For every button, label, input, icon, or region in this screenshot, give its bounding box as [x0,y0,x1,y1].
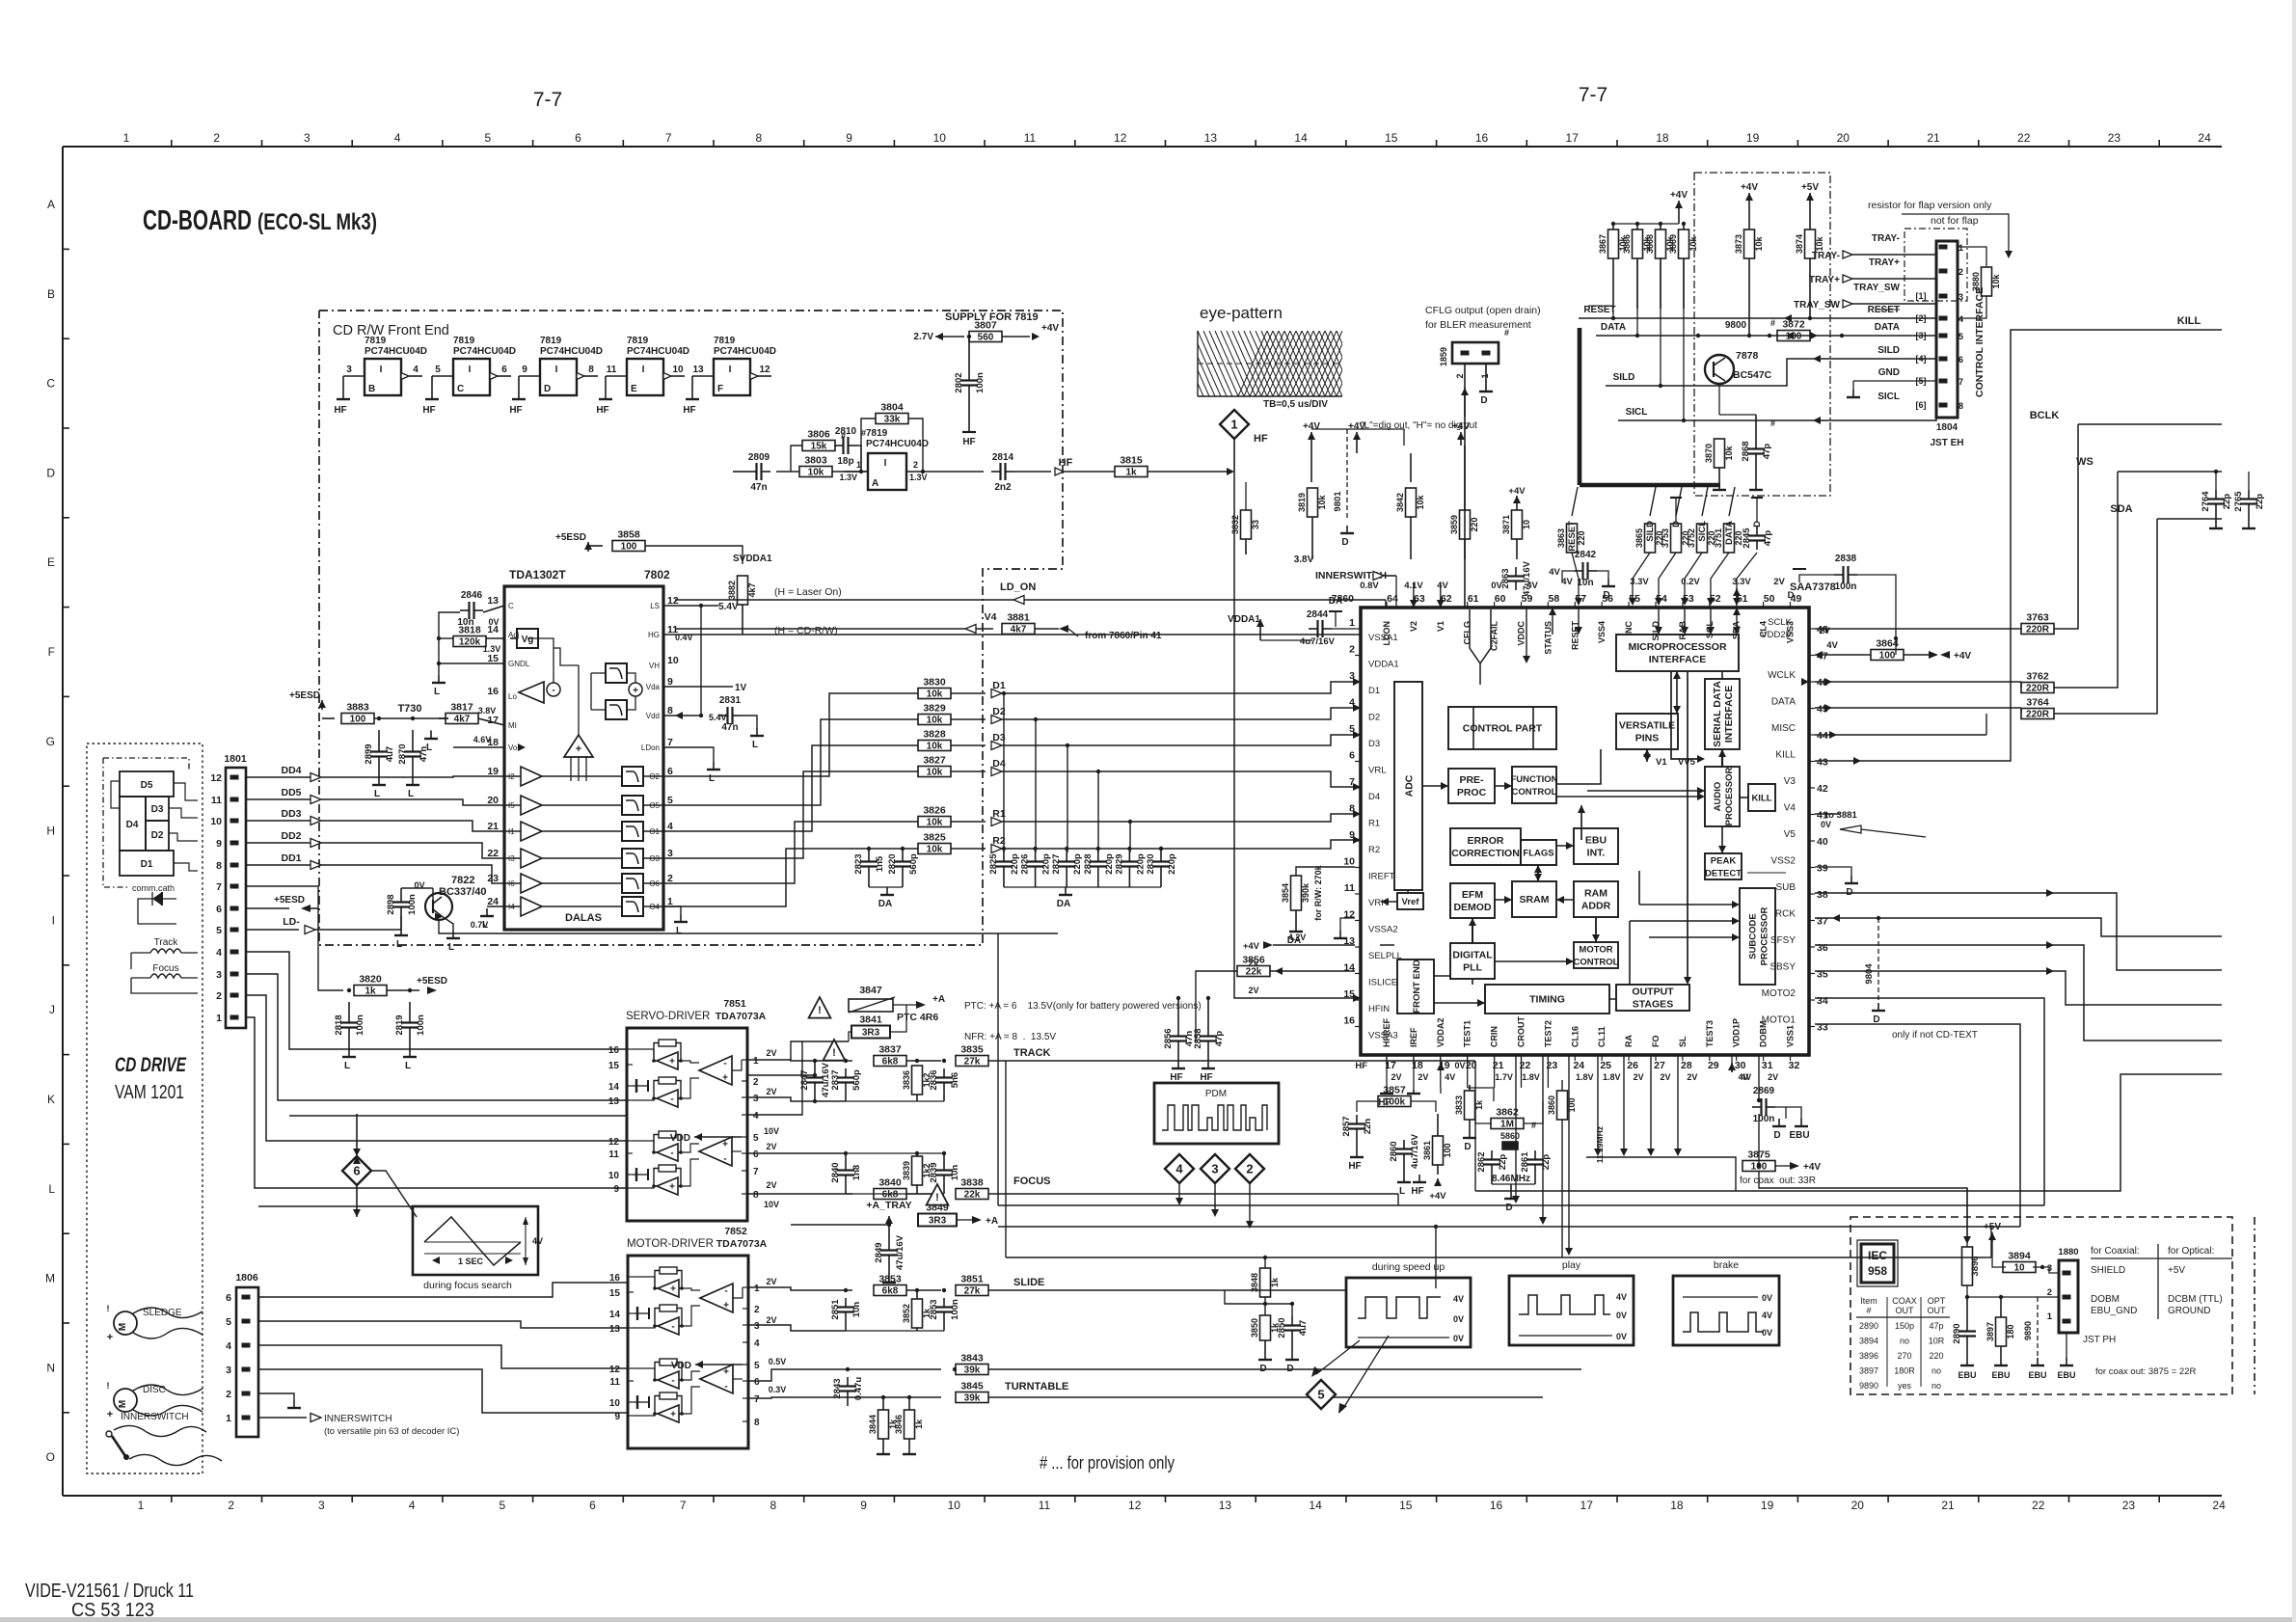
svg-text:1: 1 [226,1413,231,1424]
svg-text:4V: 4V [1738,1072,1748,1082]
svg-text:SUB: SUB [1775,882,1796,893]
svg-text:5n6: 5n6 [950,1072,960,1088]
svg-text:10k: 10k [1416,495,1425,510]
svg-text:8: 8 [753,1190,759,1201]
svg-text:16: 16 [1343,1015,1355,1027]
svg-text:3838: 3838 [960,1177,984,1189]
svg-text:DD4: DD4 [281,765,301,776]
svg-text:18p: 18p [837,456,853,467]
svg-text:16: 16 [487,686,499,697]
svg-text:220: 220 [1929,1351,1943,1361]
svg-text:EBU_GND: EBU_GND [2091,1306,2137,1316]
svg-text:3763: 3763 [2026,612,2049,624]
svg-text:9: 9 [216,838,222,850]
svg-text:KILL: KILL [1775,750,1796,761]
svg-text:3873: 3873 [1734,234,1743,254]
svg-text:13: 13 [1204,131,1218,145]
svg-text:10: 10 [948,1499,961,1512]
svg-text:10k: 10k [1688,236,1698,252]
svg-text:27k: 27k [964,1286,981,1297]
svg-text:3751: 3751 [1714,528,1723,548]
svg-text:6k8: 6k8 [882,1057,899,1068]
svg-text:560p: 560p [851,1069,862,1091]
svg-text:100: 100 [621,542,637,553]
svg-text:3835: 3835 [960,1044,984,1056]
svg-text:40: 40 [1817,836,1828,848]
svg-text:1.3V: 1.3V [909,473,928,482]
svg-text:47u/16V: 47u/16V [821,1062,831,1097]
svg-text:6: 6 [667,766,673,777]
svg-text:resistor for flap version only: resistor for flap version only [1868,200,1992,211]
svg-text:MI: MI [508,721,517,730]
svg-text:HF: HF [334,405,346,416]
svg-text:VDD: VDD [670,1133,690,1144]
svg-text:34: 34 [1817,995,1828,1007]
svg-text:100: 100 [1443,1143,1452,1157]
svg-text:10V: 10V [764,1200,779,1209]
svg-text:MOTO2: MOTO2 [1762,988,1796,999]
svg-text:V2: V2 [1409,621,1418,632]
svg-text:1.3V: 1.3V [483,644,501,654]
svg-text:9801: 9801 [1333,491,1343,512]
svg-text:RAM: RAM [1584,888,1607,900]
svg-text:SCL: SCL [1705,620,1715,638]
svg-text:2V: 2V [1391,1072,1401,1082]
svg-text:for Optical:: for Optical: [2168,1246,2214,1257]
svg-text:DALAS: DALAS [565,912,602,924]
svg-text:6: 6 [1349,750,1355,762]
svg-text:HF: HF [683,405,695,416]
svg-text:11.29MHz: 11.29MHz [1595,1126,1605,1163]
svg-text:33k: 33k [884,415,901,425]
svg-text:L: L [405,1061,411,1071]
svg-text:C: C [508,602,514,610]
svg-text:32: 32 [1789,1060,1800,1071]
svg-text:HF: HF [422,405,435,416]
svg-text:4V: 4V [1437,581,1448,591]
svg-text:-: - [552,686,554,696]
svg-text:2: 2 [667,873,673,884]
svg-text:4V: 4V [1616,1292,1627,1302]
svg-text:#: # [1866,1306,1871,1315]
svg-text:D: D [544,384,551,394]
svg-text:6: 6 [226,1292,231,1304]
svg-text:1: 1 [138,1499,145,1512]
svg-text:18: 18 [1670,1499,1684,1512]
svg-text:C: C [457,384,464,394]
svg-text:CFLG: CFLG [1463,621,1472,645]
svg-text:12: 12 [1343,909,1355,921]
svg-text:+A_TRAY: +A_TRAY [866,1200,911,1211]
svg-text:21: 21 [1927,131,1940,145]
svg-text:C: C [46,377,55,391]
svg-text:+: + [722,1073,728,1084]
svg-text:2V: 2V [766,1142,776,1151]
svg-text:23: 23 [2122,1499,2136,1512]
svg-text:21: 21 [487,821,499,832]
svg-text:5: 5 [754,1361,760,1371]
svg-text:OUT: OUT [1928,1306,1947,1315]
svg-text:BC337/40: BC337/40 [439,886,487,898]
svg-text:3833: 3833 [1454,1095,1464,1115]
svg-text:3896: 3896 [1970,1256,1981,1276]
svg-text:8: 8 [216,860,222,872]
svg-text:38: 38 [1817,889,1828,901]
svg-text:31: 31 [1762,1060,1773,1071]
svg-text:PC74HCU04D: PC74HCU04D [365,346,427,357]
svg-text:22: 22 [2017,131,2031,145]
svg-text:7822: 7822 [451,875,474,886]
svg-text:LD-: LD- [283,916,300,928]
svg-text:1: 1 [1230,418,1237,432]
svg-text:INNERSWITCH: INNERSWITCH [324,1414,392,1424]
svg-text:2831: 2831 [719,695,742,706]
svg-text:2764: 2764 [2201,491,2211,512]
svg-text:16: 16 [1490,1499,1503,1512]
svg-text:SVDDA1: SVDDA1 [733,554,772,564]
svg-text:6: 6 [575,131,581,145]
svg-text:1: 1 [754,1284,760,1294]
svg-text:FRONT END: FRONT END [1412,960,1422,1014]
svg-text:D5: D5 [141,780,153,791]
svg-text:Lo: Lo [508,692,517,701]
svg-text:0V: 0V [1616,1311,1627,1320]
svg-text:0V: 0V [488,617,499,627]
svg-text:not for flap: not for flap [1931,215,1979,227]
svg-text:AUDIO: AUDIO [1713,782,1723,812]
svg-text:IREFT: IREFT [1368,872,1395,882]
svg-text:+: + [576,743,581,755]
svg-text:D: D [1286,1364,1293,1374]
svg-text:DATA: DATA [1601,322,1626,333]
svg-text:3853: 3853 [878,1274,902,1285]
svg-text:VAM 1201: VAM 1201 [115,1082,184,1103]
svg-text:1: 1 [216,1013,222,1024]
svg-text:2V: 2V [1418,1072,1428,1082]
svg-text:7: 7 [667,737,673,748]
svg-text:DA: DA [878,899,892,909]
svg-text:14: 14 [1309,1499,1322,1512]
svg-text:yes: yes [1898,1381,1912,1391]
svg-text:24: 24 [2198,131,2211,145]
svg-text:27k: 27k [964,1057,981,1068]
svg-text:TRAY+: TRAY+ [1809,275,1840,285]
svg-text:2: 2 [1455,373,1465,378]
svg-text:SILD: SILD [1877,345,1900,356]
svg-text:2V: 2V [1687,1072,1697,1082]
svg-text:DIGITAL: DIGITAL [1452,950,1493,961]
svg-text:220R: 220R [2026,625,2050,635]
svg-text:RCK: RCK [1775,909,1796,920]
svg-text:COAX: COAX [1892,1296,1917,1306]
svg-text:7-7: 7-7 [533,89,562,111]
svg-text:2n2: 2n2 [994,482,1012,493]
svg-text:3875: 3875 [1747,1149,1770,1161]
svg-text:VSSA2: VSSA2 [1368,925,1398,935]
svg-text:+: + [670,1410,676,1420]
svg-text:DCBM (TTL): DCBM (TTL) [2168,1294,2223,1305]
svg-text:EBU: EBU [2028,1370,2046,1380]
svg-text:FO: FO [1651,1036,1661,1048]
svg-text:3851: 3851 [960,1274,984,1285]
svg-text:#: # [1770,419,1775,428]
svg-text:7-7: 7-7 [1579,84,1607,106]
svg-text:D: D [1341,537,1348,548]
svg-text:brake: brake [1714,1259,1739,1271]
svg-text:PINS: PINS [1635,733,1660,744]
svg-text:DD1: DD1 [281,852,301,864]
svg-text:2853: 2853 [929,1299,939,1319]
svg-text:3861: 3861 [1422,1141,1432,1160]
svg-text:HF: HF [1200,1072,1212,1083]
svg-text:9890: 9890 [1859,1381,1878,1391]
svg-text:13: 13 [1219,1499,1232,1512]
svg-text:no: no [1931,1381,1941,1391]
svg-text:6: 6 [216,904,222,915]
svg-text:VRL: VRL [1368,766,1386,776]
svg-text:CONTROL: CONTROL [1574,958,1619,968]
svg-text:220p: 220p [1167,853,1177,875]
svg-text:2: 2 [1349,644,1355,656]
svg-text:HF: HF [596,405,608,416]
svg-text:PC74HCU04D: PC74HCU04D [627,346,689,357]
svg-text:3841: 3841 [859,1014,882,1026]
svg-text:2840: 2840 [830,1162,841,1182]
svg-text:DA: DA [1057,899,1070,909]
svg-text:DD2: DD2 [281,830,301,842]
svg-text:560p: 560p [908,853,919,875]
svg-text:eye-pattern: eye-pattern [1200,304,1283,322]
svg-text:3869: 3869 [1668,234,1678,254]
svg-text:TIMING: TIMING [1529,994,1565,1006]
svg-text:10n: 10n [1577,578,1593,588]
svg-text:16: 16 [609,1273,621,1284]
svg-text:3852: 3852 [902,1304,911,1323]
svg-text:2869: 2869 [1753,1086,1775,1096]
svg-text:3863: 3863 [1556,528,1566,548]
svg-text:+: + [670,1284,676,1295]
svg-text:2827: 2827 [1051,853,1062,874]
svg-text:100: 100 [1879,651,1896,662]
svg-text:23: 23 [2108,131,2121,145]
svg-text:D: D [1603,590,1609,601]
svg-text:1801: 1801 [224,753,247,765]
svg-text:+4V: +4V [1041,323,1059,334]
svg-text:1.7V: 1.7V [1495,1072,1513,1082]
svg-text:# ... for provision only: # ... for provision only [1040,1452,1175,1473]
svg-text:3: 3 [226,1365,231,1376]
svg-text:VIDE-V21561 / Druck 11: VIDE-V21561 / Druck 11 [25,1581,194,1602]
svg-text:11: 11 [1024,131,1037,145]
svg-text:K: K [47,1093,55,1106]
svg-text:3850: 3850 [1250,1318,1259,1338]
svg-text:EBU: EBU [1958,1370,1976,1380]
svg-text:220: 220 [1577,530,1586,545]
svg-text:-: - [670,1149,673,1159]
svg-text:7851: 7851 [723,998,746,1010]
svg-text:+4V: +4V [1429,1191,1446,1202]
svg-text:2814: 2814 [992,452,1014,463]
svg-text:2890: 2890 [1952,1323,1962,1343]
svg-text:2V: 2V [766,1048,776,1058]
svg-text:DOBM: DOBM [2091,1294,2120,1305]
svg-text:7878: 7878 [1736,350,1759,362]
svg-text:RESET: RESET [1570,621,1580,651]
svg-text:2V: 2V [1768,1072,1778,1082]
svg-text:22p: 22p [2255,494,2265,510]
svg-text:3849: 3849 [926,1203,949,1214]
svg-text:during focus search: during focus search [423,1280,512,1291]
svg-text:L: L [448,942,454,953]
svg-text:39: 39 [1817,863,1828,875]
svg-text:4u7/16V: 4u7/16V [1300,636,1336,647]
svg-text:22p: 22p [1498,1154,1508,1171]
svg-text:100n: 100n [950,1299,960,1320]
svg-text:MICROPROCESSOR: MICROPROCESSOR [1628,641,1727,653]
svg-text:STATUS: STATUS [1543,621,1553,655]
svg-text:8: 8 [1958,401,1963,411]
svg-text:3858: 3858 [617,529,640,541]
svg-text:NFR: +A = 8 . 13.5V: NFR: +A = 8 . 13.5V [964,1032,1056,1042]
svg-text:D4: D4 [1368,792,1380,802]
svg-text:IREF: IREF [1409,1027,1418,1047]
svg-text:2836: 2836 [929,1069,939,1090]
svg-text:7: 7 [216,881,222,893]
svg-text:2820: 2820 [887,853,898,874]
svg-text:SILD: SILD [1651,621,1661,641]
svg-text:4k7: 4k7 [1011,625,1027,635]
svg-text:10: 10 [1343,856,1355,868]
svg-text:24: 24 [2212,1499,2226,1512]
svg-text:10k: 10k [1754,236,1764,252]
svg-text:24: 24 [487,896,499,907]
svg-text:11: 11 [1039,1499,1051,1512]
svg-text:(H = Laser On): (H = Laser On) [774,586,842,598]
svg-text:+A: +A [932,994,945,1005]
svg-text:MOTOR: MOTOR [1579,945,1612,956]
svg-text:14: 14 [1294,131,1308,145]
svg-text:8: 8 [770,1499,777,1512]
svg-text:3848: 3848 [1250,1273,1259,1292]
svg-text:39k: 39k [964,1365,981,1376]
svg-text:7819: 7819 [453,336,475,346]
svg-text:3874: 3874 [1795,234,1804,254]
svg-text:D2: D2 [1368,713,1380,723]
svg-text:1 SEC: 1 SEC [458,1257,484,1266]
svg-text:CROUT: CROUT [1517,1016,1526,1047]
svg-text:B: B [368,384,375,394]
svg-text:3859: 3859 [1449,515,1459,534]
svg-text:!: ! [818,1005,822,1016]
svg-text:2856: 2856 [1163,1028,1174,1048]
svg-text:220p: 220p [1104,853,1115,875]
svg-text:CONTROL PART: CONTROL PART [1463,723,1543,735]
svg-text:3806: 3806 [807,429,830,441]
svg-text:OPT: OPT [1928,1296,1946,1306]
svg-text:NC: NC [1624,621,1634,634]
svg-text:8.46MHz: 8.46MHz [1492,1174,1530,1184]
svg-text:TRAY-: TRAY- [1872,233,1900,244]
svg-text:D2: D2 [151,830,164,841]
svg-text:220p: 220p [1135,853,1146,875]
svg-text:3: 3 [753,1094,759,1104]
svg-text:61: 61 [1468,593,1479,605]
svg-text:JST EH: JST EH [1930,438,1963,448]
svg-text:TEST1: TEST1 [1463,1020,1472,1047]
svg-text:3832: 3832 [1230,515,1240,534]
svg-text:10k: 10k [927,742,943,752]
svg-text:11: 11 [607,365,617,375]
svg-text:270: 270 [1897,1351,1911,1361]
svg-text:5: 5 [484,131,491,145]
svg-text:-: - [723,1059,726,1069]
svg-text:5: 5 [435,365,441,375]
svg-text:9: 9 [522,365,527,375]
svg-text:CRIN: CRIN [1490,1026,1499,1047]
svg-text:3762: 3762 [2026,671,2049,683]
svg-text:PRE-: PRE- [1459,774,1484,786]
svg-text:12: 12 [759,365,770,375]
svg-text:SERIAL DATA: SERIAL DATA [1712,681,1723,747]
svg-text:CD R/W Front End: CD R/W Front End [333,323,449,338]
svg-text:3R3: 3R3 [929,1216,947,1227]
svg-text:2V: 2V [766,1277,776,1286]
svg-text:12: 12 [1128,1499,1142,1512]
svg-text:KILL: KILL [2177,315,2201,327]
svg-text:10k: 10k [1724,446,1734,461]
svg-text:for BLER measurement: for BLER measurement [1425,319,1531,331]
svg-text:3752: 3752 [1687,528,1696,548]
svg-text:-: - [724,1382,727,1392]
svg-text:HF: HF [1355,1061,1367,1071]
svg-text:I: I [884,458,887,469]
svg-text:28: 28 [1681,1060,1692,1071]
svg-text:Vda: Vda [646,683,661,691]
svg-text:5.4V: 5.4V [709,713,727,722]
svg-text:2V: 2V [1773,577,1785,587]
svg-text:PROCESSOR: PROCESSOR [1724,768,1735,826]
svg-text:36: 36 [1817,942,1828,954]
svg-text:1k: 1k [1125,468,1137,478]
svg-text:3: 3 [754,1321,760,1332]
svg-text:2: 2 [1958,267,1963,277]
svg-text:1k: 1k [365,987,376,997]
svg-text:D: D [1773,1130,1780,1141]
svg-text:3: 3 [1211,1162,1218,1176]
svg-text:9: 9 [846,131,852,145]
svg-text:3872: 3872 [1782,319,1805,331]
svg-text:10n: 10n [950,1165,960,1181]
svg-text:10n: 10n [851,1302,862,1318]
svg-text:3897: 3897 [1859,1366,1878,1376]
svg-text:3837: 3837 [878,1044,902,1056]
svg-text:3818: 3818 [458,625,481,636]
svg-text:180R: 180R [1894,1366,1915,1376]
svg-text:6: 6 [501,365,507,375]
svg-text:12: 12 [210,772,222,784]
svg-text:19: 19 [487,766,499,777]
svg-text:10k: 10k [927,818,943,828]
svg-text:[1]: [1] [1916,291,1927,301]
svg-text:4V: 4V [1826,640,1838,651]
svg-text:17: 17 [487,715,499,726]
svg-text:3817: 3817 [450,702,473,714]
svg-text:HF: HF [1059,457,1073,469]
svg-text:10k: 10k [808,468,824,478]
svg-text:4V: 4V [1762,1311,1772,1320]
svg-text:1: 1 [1958,243,1963,253]
svg-text:7819: 7819 [627,336,649,346]
